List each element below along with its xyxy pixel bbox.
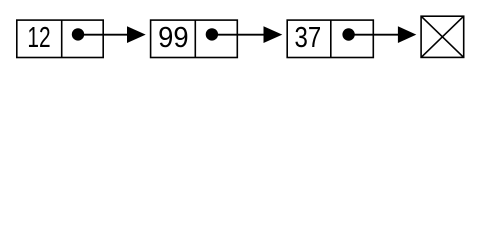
node 3 pointer dot — [342, 28, 354, 40]
svg-text:99: 99 — [158, 22, 188, 54]
node 1 box — [17, 20, 103, 57]
null terminator box — [421, 16, 464, 57]
node 2 pointer dot — [206, 28, 218, 40]
wire arrow 2 — [212, 26, 282, 43]
null X diagonal 2 — [421, 16, 464, 57]
node 1 pointer dot — [72, 28, 84, 40]
node 3 box — [287, 20, 373, 57]
wire arrow 3 — [349, 26, 417, 43]
null X diagonal 1 — [421, 16, 464, 57]
wire arrow 1 — [78, 26, 146, 43]
svg-text:37: 37 — [295, 21, 322, 54]
svg-text:12: 12 — [27, 22, 50, 54]
node 2 box — [151, 20, 238, 57]
